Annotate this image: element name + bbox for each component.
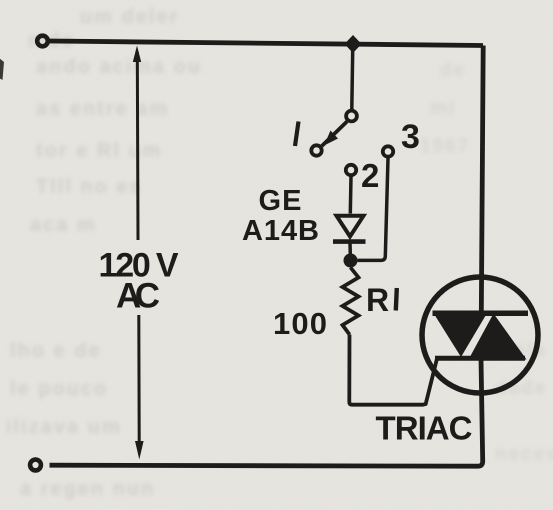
node below diode [344, 254, 358, 268]
svg-text:AC: AC [116, 277, 160, 316]
svg-text:2: 2 [361, 157, 379, 194]
switch arm arrowhead [324, 131, 338, 146]
wire contact 3 down to node [358, 159, 389, 261]
scan mark left edge [0, 58, 4, 80]
triac U1 circle [422, 277, 538, 393]
node junction at switch branch [345, 35, 362, 53]
switch contact 2 [346, 165, 356, 175]
triac lower triangle (points up) [469, 314, 527, 360]
svg-text:A14B: A14B [242, 215, 319, 247]
wire top horizontal [50, 41, 484, 46]
wire right vertical upper [481, 46, 483, 316]
switch contact 3 [383, 146, 393, 156]
triac upper triangle (points down) [433, 312, 489, 358]
terminal top-left [37, 36, 48, 47]
triac bottom bar [435, 356, 525, 361]
faint bleed-through text from reverse of scanned page [80, 6, 179, 29]
wire junction to switch pivot [352, 44, 353, 110]
wire contact 2 to diode [349, 177, 353, 214]
switch pivot [346, 111, 357, 122]
wire resistor down and right to triac gate [349, 335, 437, 405]
switch arm [322, 122, 347, 147]
120V AC dimension arrow upper [136, 52, 140, 240]
120V AC dimension arrow lower [137, 315, 140, 442]
terminal bottom-left [30, 460, 41, 471]
svg-text:TRIAC: TRIAC [376, 410, 473, 447]
svg-text:3: 3 [401, 118, 420, 156]
resistor R1 [343, 268, 359, 335]
svg-text:GE: GE [259, 185, 302, 217]
diode D1 GE A14B triangle [337, 216, 364, 237]
diode cathode bar [333, 239, 366, 244]
svg-text:100: 100 [273, 306, 327, 341]
svg-text:R: R [366, 282, 389, 318]
switch contact 1 [311, 145, 321, 155]
label 1 [295, 122, 299, 147]
triac top bar [433, 311, 529, 317]
wire diode to node [348, 243, 352, 254]
wire right vertical lower [50, 359, 483, 467]
